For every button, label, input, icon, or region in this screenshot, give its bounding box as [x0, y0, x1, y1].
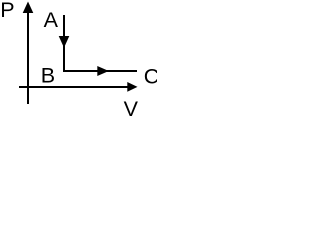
svg-text:C: C: [144, 65, 157, 89]
svg-text:B: B: [41, 64, 55, 88]
svg-text:P: P: [0, 0, 14, 22]
svg-text:A: A: [44, 8, 59, 32]
svg-text:V: V: [124, 97, 139, 121]
